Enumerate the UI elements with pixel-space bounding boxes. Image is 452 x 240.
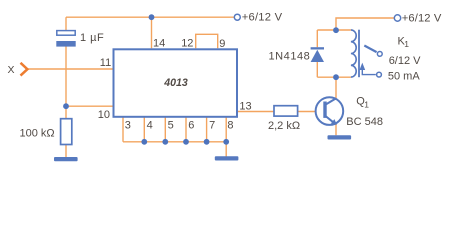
svg-text:8: 8 [227, 119, 233, 131]
svg-text:+6/12 V: +6/12 V [402, 13, 442, 25]
svg-text:13: 13 [239, 100, 251, 112]
svg-text:14: 14 [153, 38, 165, 50]
svg-text:2,2 kΩ: 2,2 kΩ [268, 120, 300, 132]
svg-text:7: 7 [209, 119, 215, 131]
svg-text:5: 5 [168, 119, 174, 131]
svg-text:X: X [8, 64, 15, 76]
svg-text:+6/12 V: +6/12 V [242, 11, 283, 23]
svg-text:12: 12 [181, 38, 193, 50]
svg-text:11: 11 [100, 57, 111, 69]
svg-text:1N4148: 1N4148 [269, 51, 311, 63]
svg-text:6/12 V: 6/12 V [389, 55, 421, 67]
svg-text:1 µF: 1 µF [80, 32, 104, 44]
svg-text:4013: 4013 [163, 77, 188, 89]
svg-text:3: 3 [125, 119, 131, 131]
svg-text:100 kΩ: 100 kΩ [20, 128, 55, 140]
svg-text:10: 10 [98, 109, 110, 121]
svg-text:50 mA: 50 mA [388, 70, 420, 82]
svg-text:BC 548: BC 548 [346, 116, 383, 128]
svg-text:6: 6 [188, 119, 194, 131]
svg-text:4: 4 [147, 119, 153, 131]
svg-text:9: 9 [219, 38, 225, 50]
svg-text:1: 1 [364, 100, 369, 110]
svg-text:1: 1 [404, 39, 409, 49]
